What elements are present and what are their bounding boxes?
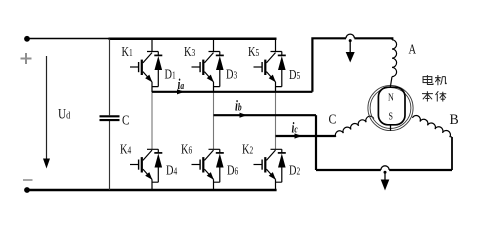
svg-text:K2: K2 bbox=[242, 141, 253, 157]
svg-text:C: C bbox=[329, 111, 337, 127]
svg-text:A: A bbox=[409, 41, 417, 57]
svg-text:K6: K6 bbox=[181, 141, 193, 157]
svg-text:S: S bbox=[389, 111, 393, 122]
svg-text:N: N bbox=[388, 92, 394, 103]
svg-text:C: C bbox=[122, 112, 129, 127]
svg-text:ia: ia bbox=[178, 76, 185, 92]
svg-text:D1: D1 bbox=[165, 66, 176, 82]
svg-text:D4: D4 bbox=[166, 162, 178, 178]
svg-text:K4: K4 bbox=[120, 141, 132, 157]
svg-text:D2: D2 bbox=[289, 162, 300, 178]
svg-text:K1: K1 bbox=[122, 43, 133, 59]
svg-text:K5: K5 bbox=[248, 43, 260, 59]
svg-text:ib: ib bbox=[235, 98, 242, 114]
svg-text:B: B bbox=[450, 112, 459, 128]
svg-text:ic: ic bbox=[292, 120, 298, 136]
svg-text:D6: D6 bbox=[227, 162, 239, 178]
svg-text:D5: D5 bbox=[289, 66, 301, 82]
svg-text:K3: K3 bbox=[184, 43, 196, 59]
svg-text:D3: D3 bbox=[226, 66, 238, 82]
svg-text:Ud: Ud bbox=[58, 105, 70, 122]
